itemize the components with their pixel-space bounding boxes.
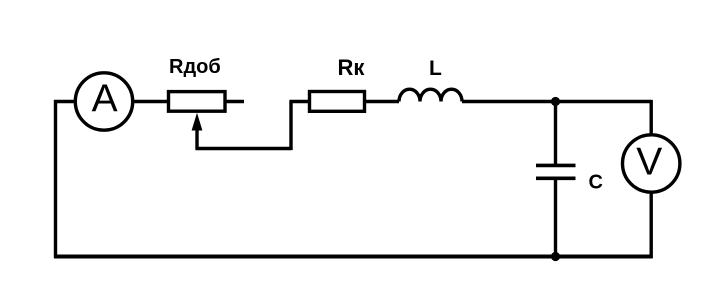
capacitor C bottom plate	[536, 177, 576, 181]
wire bottom	[54, 255, 653, 259]
svg-text:Rк: Rк	[338, 55, 366, 80]
inductor L coils	[399, 89, 462, 101]
svg-text:C: C	[589, 172, 603, 194]
resistor Rk body	[310, 92, 365, 112]
wire wiper horizontal	[195, 147, 291, 150]
capacitor C top plate	[536, 164, 576, 168]
wire rheostat right stub	[225, 100, 244, 103]
node junction top	[551, 97, 560, 106]
wire junction to right corner	[556, 100, 652, 103]
svg-text:V: V	[636, 141, 662, 184]
wire capacitor bottom down	[554, 180, 557, 257]
wire ammeter to rheostat	[133, 100, 168, 103]
wire Rk to L	[365, 100, 400, 103]
rheostat wiper arrowhead	[192, 113, 203, 131]
voltmeter V	[623, 135, 680, 192]
wire to Rk	[289, 100, 308, 103]
svg-text:A: A	[92, 77, 118, 120]
wire left rail to ammeter	[54, 100, 75, 103]
wire right rail top down to voltmeter	[650, 100, 653, 135]
rheostat Rdob body	[169, 92, 226, 112]
wire voltmeter bottom down	[650, 192, 653, 258]
wire wiper vertical up	[289, 102, 292, 151]
wire rheostat wiper shaft	[195, 127, 198, 149]
wire left rail	[54, 100, 57, 258]
ammeter A	[75, 73, 132, 130]
wire junction down to capacitor	[554, 102, 557, 165]
svg-text:Rдоб: Rдоб	[169, 56, 221, 78]
svg-text:L: L	[429, 57, 442, 80]
wire L to junction	[462, 100, 556, 103]
node junction bottom	[551, 252, 560, 261]
